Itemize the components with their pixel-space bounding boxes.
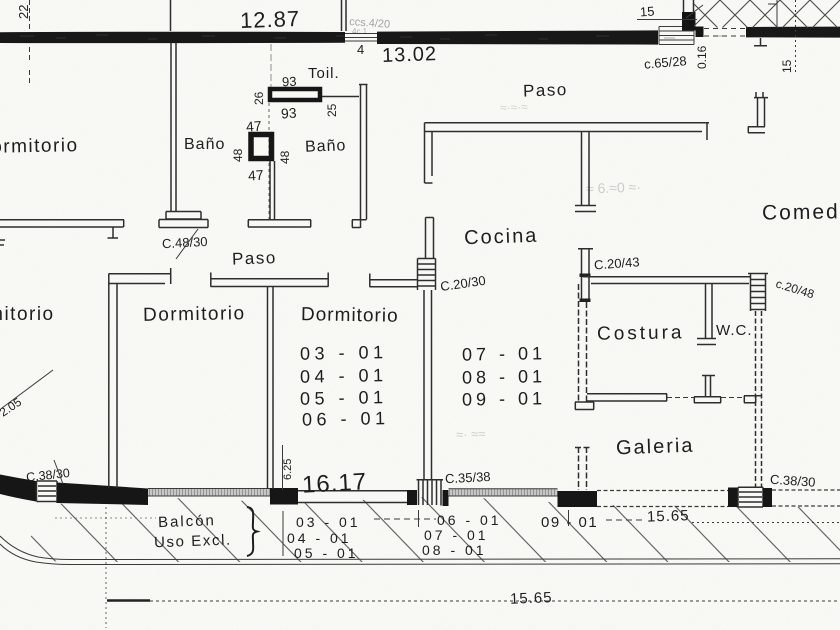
wall below shaft (270, 161, 275, 220)
door opening sill (top, c.65 area left) (345, 34, 377, 42)
L-bracket wall piece (Comedor corner) (748, 92, 768, 133)
svg-text:C.20/43: C.20/43 (594, 254, 640, 272)
svg-text:13.02: 13.02 (382, 43, 438, 67)
wall bar between Dormitorio2 and Dormitorio3 (top) (211, 273, 329, 287)
balcony wall black segment 3 (270, 488, 298, 505)
svg-text:Comedor: Comedor (762, 200, 840, 225)
door jamb stack C.20/30 (418, 259, 436, 291)
svg-text:03 - 01: 03 - 01 (300, 342, 388, 364)
svg-text:16.17: 16.17 (301, 468, 367, 498)
svg-text:05 - 01: 05 - 01 (300, 387, 388, 409)
dotted window wall (597, 491, 728, 507)
svg-text:15: 15 (639, 4, 654, 20)
balcony wall black segment 4 (558, 491, 598, 507)
door dimension jamb C.20/43 (578, 249, 593, 302)
dashed door openings Galeria (667, 397, 744, 399)
svg-text:≈ 6.≈0 ≈·: ≈ 6.≈0 ≈· (586, 179, 641, 197)
exterior wall segment B (377, 30, 658, 44)
svg-text:Paso: Paso (523, 80, 568, 101)
door sill C.38/30 right with flanks (728, 488, 738, 508)
svg-text:06 - 01: 06 - 01 (437, 512, 502, 528)
wall right of Banos (352, 85, 368, 229)
corner wall Dormitorio2 top (109, 268, 172, 488)
wall between Costura and W.C. (697, 284, 716, 345)
black flank left of comb sill (407, 490, 417, 505)
pillar edge lines to top (684, 0, 694, 12)
ventilation shaft (thick square) (251, 135, 272, 159)
Galeria left wall stub (575, 447, 590, 490)
svg-text:08 - 01: 08 - 01 (462, 366, 546, 387)
tee tick below wall (108, 227, 119, 238)
svg-text:22: 22 (16, 5, 31, 19)
svg-text:07 - 01: 07 - 01 (462, 343, 546, 364)
svg-text:Baño: Baño (184, 136, 225, 153)
svg-text:Paso: Paso (232, 248, 277, 269)
svg-text:C.48/30: C.48/30 (162, 234, 208, 251)
svg-text:W.C.: W.C. (716, 322, 753, 339)
svg-text:Dormitorio: Dormitorio (0, 135, 79, 158)
svg-text:15: 15 (780, 59, 794, 73)
dashed door opening (right) (704, 29, 746, 37)
dotted window wall right (772, 490, 840, 506)
svg-text:Balcón: Balcón (158, 512, 216, 531)
door jamb stack c.20/48 (top right) (748, 274, 768, 312)
balcony outer edge curves (0, 536, 840, 560)
tee base of shaft wall (248, 220, 311, 227)
svg-text:15.65: 15.65 (647, 507, 690, 525)
corner block right of pillar (696, 27, 704, 38)
centerline through shaft (268, 103, 270, 219)
svg-text:Baño: Baño (305, 137, 347, 155)
pedestal / door C.48-30 (159, 212, 208, 228)
interior wall line above band (170, 0, 172, 31)
svg-text:≈·≈·≈: ≈·≈·≈ (500, 100, 529, 115)
party wall cross-hatch region (694, 0, 840, 28)
wall texture speckles B (400, 35, 724, 39)
pillar above door (682, 12, 696, 31)
dotted leaders (374, 519, 645, 520)
svg-text:03 - 01: 03 - 01 (296, 514, 361, 530)
balcony wall black segment 2 (57, 483, 148, 506)
divider wall Dormitorio2/3 (268, 287, 274, 489)
wall bottom of Dormitorio1 (0, 220, 124, 227)
svg-text:05 - 01: 05 - 01 (294, 545, 359, 561)
svg-text:47: 47 (245, 118, 262, 135)
svg-text:Uso Excl.: Uso Excl. (154, 532, 232, 552)
svg-text:04 - 01: 04 - 01 (287, 530, 352, 546)
svg-text:09 - 01: 09 - 01 (462, 388, 546, 409)
svg-text:Galeria: Galeria (616, 435, 695, 460)
dimension extension dashed line left (29, 0, 31, 84)
wall stub lines above door (342, 0, 347, 31)
svg-text:0.16: 0.16 (695, 45, 709, 69)
exterior wall segment A (0, 32, 345, 43)
svg-text:93: 93 (281, 105, 298, 122)
top wall of Cocina corridor (425, 123, 710, 140)
connector line counter to wall (322, 96, 359, 98)
edge mark left (0, 240, 5, 245)
svg-text:08 - 01: 08 - 01 (422, 542, 487, 558)
svg-text:Costura: Costura (597, 322, 685, 345)
svg-text:06 - 01: 06 - 01 (302, 408, 390, 430)
svg-text:Cocina: Cocina (464, 225, 539, 250)
svg-text:25: 25 (325, 103, 339, 117)
door sill C.38/30 left (37, 481, 58, 503)
wall between Dormitorio1 and Banos (171, 43, 176, 211)
svg-text:47: 47 (247, 167, 264, 184)
wall texture speckles A (20, 35, 345, 39)
wc fixture tee (694, 376, 721, 403)
svg-text:93: 93 (282, 74, 297, 90)
balcony hatch field (18, 496, 840, 562)
curly brace (247, 507, 257, 556)
comb door sill C.35/38 (417, 480, 444, 506)
Costura top wall (583, 277, 751, 284)
svg-text:48: 48 (231, 148, 245, 162)
Cocina left wall upper (425, 123, 433, 183)
dimension line 6.25 (282, 445, 284, 490)
separator ticks (283, 510, 569, 556)
faint center line from wall to counter (270, 44, 272, 87)
toilet counter (thick rect) (270, 89, 320, 100)
svg-text:Toil.: Toil. (308, 65, 340, 82)
svg-text:04 - 01: 04 - 01 (300, 365, 388, 387)
door sill steps c.65/28 (659, 27, 694, 45)
Cocina left wall lower (426, 218, 434, 259)
exterior wall segment C (746, 27, 840, 38)
step piece to right wall (744, 396, 762, 403)
svg-text:C.38/30: C.38/30 (769, 472, 815, 490)
bottom dimension line (107, 599, 150, 602)
svg-text:Dormitorio: Dormitorio (0, 304, 55, 325)
svg-text:Dormitorio: Dormitorio (143, 303, 246, 326)
svg-text:09 - 01: 09 - 01 (541, 514, 598, 531)
Costura left wall (579, 284, 587, 402)
divider wall Dormitorio3 right (424, 290, 432, 479)
railing band A (148, 489, 270, 497)
diagonal dim 2.05 (2, 370, 53, 408)
svg-text:4c.1: 4c.1 (352, 27, 368, 36)
dotted extension line right (795, 0, 797, 75)
svg-text:6.25: 6.25 (282, 459, 294, 480)
small tee below wall C (754, 38, 767, 46)
svg-text:C.35/38: C.35/38 (445, 469, 491, 486)
black flank right of comb sill (443, 490, 449, 506)
hatch boundary line (768, 0, 777, 27)
svg-text:Dormitorio: Dormitorio (301, 304, 399, 327)
svg-text:48: 48 (278, 150, 292, 164)
Cocina divider wall (right) (575, 132, 596, 212)
railing band B (449, 489, 558, 496)
svg-text:15.65: 15.65 (510, 589, 553, 607)
wall bar left of door C.20/30 (370, 274, 418, 287)
svg-text:12.87: 12.87 (240, 6, 301, 33)
window wall double line (298, 491, 407, 503)
Costura bottom wall (587, 394, 667, 401)
right exterior wall (dotted) (756, 311, 762, 487)
svg-text:26: 26 (252, 91, 266, 105)
balcony wall: curved start (black) (0, 475, 36, 502)
svg-text:≈· ≈≈: ≈· ≈≈ (456, 426, 486, 442)
svg-text:4: 4 (357, 42, 364, 57)
svg-text:07 - 01: 07 - 01 (424, 527, 489, 543)
